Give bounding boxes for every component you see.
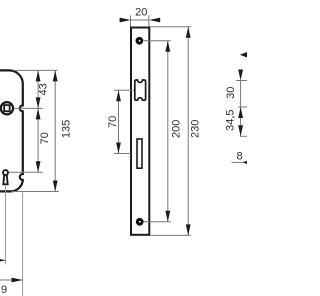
extension line: plate bottom right (150, 234, 191, 236)
lock case body (left view, cropped at left edge) (0, 70, 23, 191)
extension line right chain middle (238, 106, 247, 108)
bottom dimension line 2 (cropped) (0, 279, 23, 281)
arrow up 230 (186, 27, 191, 38)
arrow down to 136.3 (238, 125, 243, 136)
dimension line 230 (187, 27, 189, 236)
arrow down 230 (186, 224, 191, 235)
extension line: top hole axis (144, 40, 171, 42)
svg-text:230: 230 (190, 120, 202, 138)
svg-text:70: 70 (39, 132, 51, 144)
extension line: case bottom (12, 191, 60, 193)
extension line: bottom hole axis (144, 221, 171, 223)
arrow left (cropped side view, top right) (240, 51, 249, 58)
extension line: deadbolt axis (left of plate) (114, 153, 131, 155)
arrow down 200 (165, 211, 170, 222)
dimension line 135 (54, 70, 56, 191)
arrow down 43 (36, 97, 41, 108)
faceplate top screw hole (136, 37, 144, 45)
extension line: keyhole axis down (5, 186, 7, 265)
bottom dimension line 1 (cropped) (0, 259, 6, 261)
dimension 8 (cropped right) (232, 151, 250, 165)
extension line: latch axis (left of plate) (114, 89, 134, 91)
arrow up 200 (165, 41, 170, 52)
svg-text:9: 9 (1, 284, 7, 296)
follower (square spindle hub) (1, 102, 13, 114)
dimension line right chain (240, 81, 242, 137)
arrow down to 80.5 (238, 70, 243, 81)
svg-text:30: 30 (225, 87, 237, 99)
arrow down 70 (36, 161, 41, 172)
extension line: plate top right (150, 26, 191, 28)
dimension 20 (plate width) (120, 6, 161, 26)
arrow down 135 (53, 181, 58, 192)
arrow up 70 (36, 108, 41, 119)
arrow up 135 (53, 70, 58, 81)
arrow up 70 plate (116, 90, 121, 101)
arrow up to 107 (238, 107, 243, 118)
extension line: case top (13, 69, 58, 71)
dimension line 70 (plate) (118, 90, 120, 153)
arrow down 70 plate (116, 143, 121, 154)
extension line: case right edge down (22, 193, 24, 296)
svg-text:34,5: 34,5 (224, 109, 236, 130)
keyhole (3, 170, 8, 184)
svg-text:135: 135 (60, 120, 72, 138)
deadbolt cutout (137, 139, 142, 168)
arrow up 43 (36, 70, 41, 81)
dimension line 200 (167, 41, 169, 222)
arrow right bottom dim 2 (12, 278, 23, 283)
faceplate bottom screw hole (136, 218, 144, 226)
faceplate outline (131, 28, 149, 235)
extension line: keyhole axis (9, 171, 43, 173)
dimension line 43/70 (left) (37, 70, 39, 172)
latch bolt cutout (135, 80, 146, 100)
svg-text:20: 20 (135, 6, 147, 18)
svg-text:70: 70 (107, 116, 119, 128)
extension line: follower axis (14, 107, 43, 109)
extension line right chain top (236, 80, 247, 82)
extension line right chain bottom (240, 135, 247, 137)
svg-text:200: 200 (170, 120, 182, 138)
svg-text:43: 43 (37, 83, 49, 95)
svg-text:8: 8 (237, 151, 243, 163)
arrow right bottom dim 1 (0, 258, 6, 263)
